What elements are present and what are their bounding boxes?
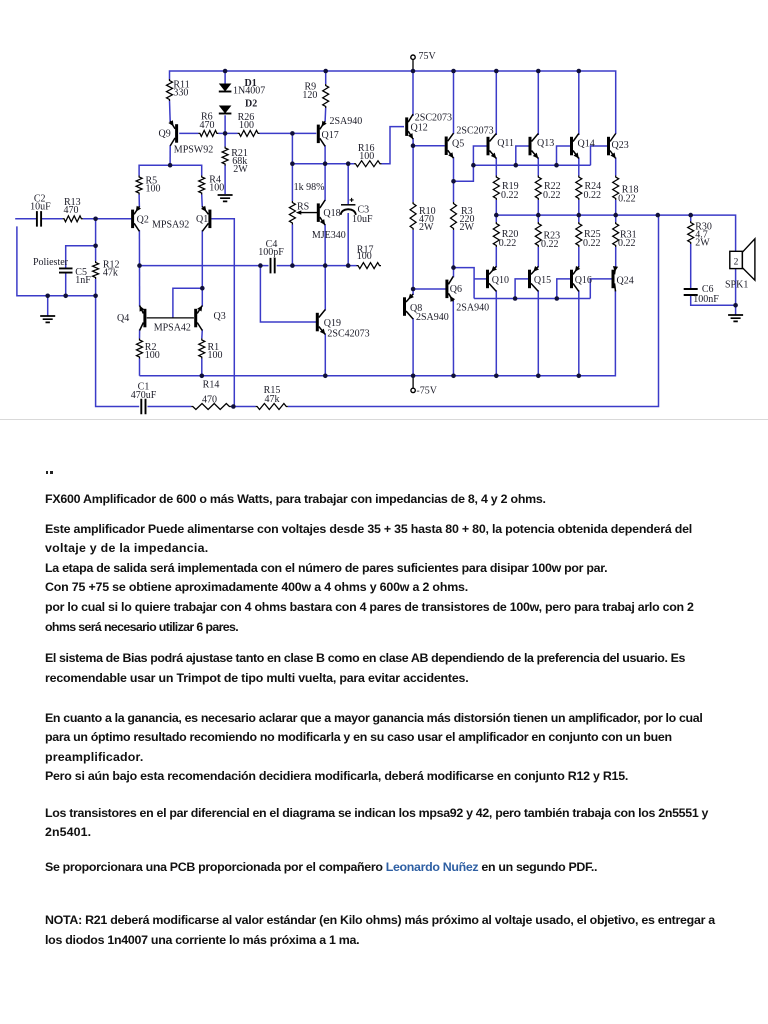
transistor Q13 (529, 134, 539, 159)
svg-text:2W: 2W (233, 164, 248, 175)
svg-text:47k: 47k (265, 394, 280, 405)
node out rail R22 (536, 213, 541, 218)
capacitor C3 polarized (341, 198, 356, 215)
resistor R19 (493, 176, 499, 201)
svg-text:MJE340: MJE340 (312, 230, 346, 241)
wire: C6 to speaker ground node (691, 296, 736, 305)
svg-text:10uF: 10uF (352, 214, 373, 225)
resistor R6 (198, 130, 218, 136)
wire: Q10 base stub (474, 278, 486, 280)
resistor R30 (688, 221, 694, 244)
wire: ground bus down to C1 (96, 296, 140, 407)
wire: +75V top bus (170, 71, 616, 134)
ground under R21 (218, 195, 233, 201)
node Q2 collector (137, 263, 142, 268)
wire: Q14 base riser (557, 146, 571, 165)
transistor Q11 (487, 134, 497, 159)
svg-text:MPSA42: MPSA42 (154, 323, 191, 334)
wire: R10 to Q8 emitter node (412, 230, 414, 295)
wire: driver bus link (454, 146, 487, 181)
node RS bottom (290, 263, 295, 268)
wire: -75V rail (140, 291, 616, 376)
node C3 bottom (346, 263, 351, 268)
wire: Q3 collector to R1 (201, 330, 204, 339)
svg-text:330: 330 (173, 88, 188, 99)
svg-text:2SC2073: 2SC2073 (456, 126, 493, 137)
wire: RS top lead (291, 164, 293, 201)
node bias D2-R6-R26-R21 (223, 131, 228, 136)
wire: Q13 emitter lead (537, 158, 539, 176)
node bus-75V (411, 69, 416, 74)
resistor R18 (613, 176, 619, 201)
wire: Q11 collector riser (495, 71, 497, 135)
node -75 rail term (411, 374, 416, 379)
wire: Q12 emitter to R10 (412, 138, 414, 202)
resistor R20 (493, 222, 499, 247)
svg-text:D2: D2 (245, 99, 257, 110)
node driver riser (471, 163, 476, 168)
svg-text:0.22: 0.22 (499, 238, 517, 249)
wire: VAS rail (292, 163, 354, 165)
svg-text:100: 100 (357, 251, 372, 262)
transistor Q9 (168, 120, 178, 146)
resistor R22 (535, 176, 541, 201)
wire: Q16 emitter drop (578, 290, 580, 375)
svg-text:0.22: 0.22 (584, 190, 602, 201)
node -75 rail Q10 (494, 374, 499, 379)
wire: R20 leads (495, 215, 497, 267)
wire: Q15 emitter drop (537, 290, 539, 375)
svg-text:0.22: 0.22 (618, 194, 636, 205)
svg-text:2SA940: 2SA940 (330, 116, 363, 127)
wire: Q12 collector riser (412, 71, 414, 116)
node out rail R19 (494, 213, 499, 218)
wire: Q5 emitter drop (453, 157, 455, 202)
node gnd bus (93, 294, 98, 299)
svg-text:Q9: Q9 (159, 128, 171, 139)
transistor Q24 (612, 266, 619, 291)
capacitor C6 (684, 289, 698, 295)
wire: Q9 emitter drop (169, 146, 171, 166)
wire: speaker bottom lead (735, 269, 737, 315)
wire: Q19 base from C4 node (260, 266, 316, 322)
transistor Q16 (570, 266, 580, 292)
wire: RS bottom lead (291, 225, 293, 266)
svg-text:R14: R14 (203, 380, 220, 391)
transistor Q4 (140, 306, 147, 331)
wire: R18 to output rail (615, 200, 617, 215)
node C5 bottom (63, 294, 68, 299)
resistor R26 (238, 130, 260, 136)
svg-text:Q11: Q11 (497, 138, 514, 149)
wire: Q1 collector drop (201, 230, 203, 288)
node Q15 riser (513, 296, 518, 301)
wire: R13 node to R12 (95, 219, 97, 261)
wire: R6 to R26 through bias node (218, 132, 237, 134)
resistor R5 (136, 176, 142, 195)
wire: R22 to output rail (537, 200, 539, 215)
wire: Q19 emitter drop (324, 334, 326, 376)
svg-text:470: 470 (202, 395, 217, 406)
wire: upper base bus (473, 164, 590, 166)
resistor R2 (137, 339, 143, 359)
node -75 rail Q6 (451, 374, 456, 379)
wire: R23 leads (537, 215, 539, 267)
wire: Q4 collector to R2 (139, 330, 141, 339)
resistor R4 (199, 176, 205, 195)
resistor R31 (613, 222, 619, 247)
resistor R10 (410, 202, 416, 230)
wire: R5 to Q2 emitter (138, 195, 140, 208)
transistor Q10 (486, 266, 497, 291)
wire: R2 to -75 rail (139, 359, 141, 376)
svg-text:1N4007: 1N4007 (233, 86, 265, 97)
svg-text:470uF: 470uF (131, 390, 157, 401)
node feedback tap (231, 404, 236, 409)
wire: Q23 base riser (591, 146, 608, 165)
wire: R15 to feedback riser (288, 215, 659, 406)
resistor R11 (167, 79, 173, 101)
node bus-Q11 (494, 69, 499, 74)
svg-text:Q13: Q13 (537, 138, 554, 149)
wire: Q13 collector riser (537, 71, 539, 135)
wire: C5 bottom lead (65, 273, 67, 296)
svg-text:Q16: Q16 (575, 275, 592, 286)
svg-text:Q4: Q4 (117, 313, 129, 324)
node C4-Q19 (258, 263, 263, 268)
node Q17 base (290, 131, 295, 136)
wire: Q14 emitter lead (578, 158, 580, 176)
wire: Q13 base riser (516, 146, 529, 165)
node gnd stem (45, 294, 50, 299)
wire: tail rail R5 R4 (139, 165, 202, 175)
wire: R30 leads (690, 215, 692, 288)
svg-text:Q10: Q10 (492, 275, 509, 286)
svg-text:100: 100 (145, 350, 160, 361)
node Q18 emitter (323, 263, 328, 268)
node R3 bottom (451, 265, 456, 270)
wire: output rail (496, 215, 735, 251)
wire: R24 to output rail (578, 200, 580, 215)
wire: R13 to Q2 base (83, 218, 131, 220)
wire: mid rail left of C4 (140, 265, 269, 267)
svg-text:-75V: -75V (416, 385, 437, 396)
svg-text:Q17: Q17 (322, 130, 339, 141)
schematic image bottom border (0, 419, 768, 421)
svg-text:0.22: 0.22 (541, 239, 559, 250)
capacitor C5 (59, 268, 73, 272)
transistor Q1 (201, 206, 211, 232)
wire: lower base bus (474, 298, 590, 300)
speaker SPK1 (730, 239, 755, 280)
svg-text:1k 98%: 1k 98% (294, 182, 325, 193)
node Q9 emitter (168, 163, 173, 168)
wire: Q2 collector drop (138, 230, 140, 265)
wire: Q6 emitter drop (452, 300, 454, 376)
svg-text:Q1: Q1 (196, 214, 208, 225)
svg-text:Q2: Q2 (137, 215, 149, 226)
wire: R3 to Q6 collector node (453, 230, 455, 277)
resistor R25 (576, 222, 582, 247)
svg-text:100nF: 100nF (693, 294, 719, 305)
node out rail feedback (656, 213, 661, 218)
node Q16 riser (555, 296, 560, 301)
svg-text:Q19: Q19 (324, 318, 341, 329)
wire: Q16 base riser (557, 279, 570, 299)
svg-text:Q12: Q12 (411, 123, 428, 134)
wire: Q18 collector riser (324, 164, 326, 201)
wire: C3 leads (347, 164, 349, 266)
resistor R21 (222, 147, 228, 166)
svg-text:470: 470 (200, 120, 215, 131)
wire: Q12 emitter to Q5 base (413, 145, 445, 147)
svg-text:100pF: 100pF (258, 247, 284, 258)
transistor Q5 (445, 133, 454, 158)
resistor RS potentiometer (289, 201, 295, 225)
svg-text:2W: 2W (460, 222, 475, 233)
node out rail R18 (613, 213, 618, 218)
wire: Q5 collector riser (453, 71, 455, 134)
node out rail R30 (688, 213, 693, 218)
svg-text:Q3: Q3 (214, 311, 226, 322)
svg-text:2SC42073: 2SC42073 (327, 329, 369, 340)
node bus-R9 (323, 69, 328, 74)
wire: Q17 base node drop (291, 133, 293, 163)
transistor Q17 (317, 121, 327, 147)
transistor Q12 (405, 114, 413, 139)
svg-text:Q23: Q23 (612, 140, 629, 151)
wire: R26 to Q17 base (260, 132, 317, 134)
svg-text:Q14: Q14 (578, 139, 595, 150)
potentiometer RS wiper arrow (296, 210, 317, 214)
svg-text:Q5: Q5 (452, 139, 464, 150)
svg-text:1nF: 1nF (75, 275, 91, 286)
wire: Q9 base to R6 (179, 132, 198, 134)
terminal -75V (411, 388, 415, 392)
svg-text:Q24: Q24 (617, 276, 634, 287)
transistor Q6 (445, 276, 455, 302)
svg-text:120: 120 (302, 90, 317, 101)
wire: R31 leads (615, 215, 617, 267)
capacitor C2 (37, 211, 41, 227)
wire: R1 to -75 rail (201, 359, 203, 376)
wire: Q8 collector drop (412, 318, 414, 376)
svg-text:100: 100 (146, 183, 161, 194)
capacitor C1 (141, 399, 145, 414)
wire: Q19 collector riser (324, 266, 326, 311)
node bus-Q5 (451, 69, 456, 74)
wire: Q14 collector riser (578, 71, 580, 135)
wire: Q15 base riser (515, 279, 528, 299)
node bus-Q13 (536, 69, 541, 74)
wire: Q10 base link (454, 268, 475, 299)
node bus-D1 (223, 69, 228, 74)
wire: Q4 Q3 base tie riser (173, 288, 202, 318)
svg-text:0.22: 0.22 (543, 190, 561, 201)
svg-text:100: 100 (239, 120, 254, 131)
wire: mid rail right of C4 (277, 265, 357, 267)
svg-text:10uF: 10uF (30, 201, 51, 212)
resistor R14 (191, 404, 231, 410)
wire: Q23 emitter lead (615, 158, 617, 176)
wire: Q4 emitter riser (139, 266, 141, 307)
node bus-Q14 (577, 69, 582, 74)
wire: R16 to Q12 base (382, 127, 405, 164)
svg-text:2SA940: 2SA940 (416, 312, 449, 323)
svg-text:SPK1: SPK1 (725, 279, 748, 290)
node Q14 riser (554, 163, 559, 168)
wire: -75V terminal stem (412, 376, 414, 388)
wire: Q3 emitter riser (201, 288, 203, 306)
svg-text:75V: 75V (419, 51, 437, 62)
resistor R17 (357, 263, 382, 269)
wire: Q8 emitter to Q6 base (413, 288, 446, 290)
ground under speaker (728, 315, 743, 321)
wire: input ground stem (47, 296, 49, 316)
node C3 top (346, 161, 351, 166)
node -75 rail Q16 (577, 374, 582, 379)
wire: C2 to R13 (41, 218, 63, 220)
svg-text:MPSW92: MPSW92 (174, 144, 213, 155)
transistor Q14 (570, 134, 579, 159)
wire: C5 branch (66, 246, 96, 268)
transistor Q2 (131, 206, 141, 232)
node speaker ground (733, 303, 738, 308)
wire: R9 leads (324, 71, 327, 122)
wire: input stub (15, 218, 37, 220)
svg-text:Q15: Q15 (534, 275, 551, 286)
transistor Q3 (194, 306, 202, 331)
resistor R3 (451, 202, 457, 230)
capacitor C4 (271, 258, 275, 274)
resistor R12 (93, 261, 99, 279)
schematic image area (0, 0, 768, 424)
node RS top (290, 161, 295, 166)
resistor R13 (63, 216, 83, 222)
transistor Q23 (607, 134, 616, 159)
wire: Q24 base riser (590, 279, 611, 299)
transistor Q15 (528, 266, 539, 291)
svg-text:MPSA92: MPSA92 (152, 220, 189, 231)
node Q5 emitter (451, 179, 456, 184)
node -75 rail Q19 (323, 374, 328, 379)
wire: Q4-Q3 base link (147, 317, 194, 319)
svg-text:Q18: Q18 (323, 208, 340, 219)
resistor R24 (576, 176, 582, 201)
svg-text:100: 100 (208, 350, 223, 361)
diode D2 (219, 106, 232, 114)
wire: R19 to output rail (495, 200, 497, 215)
diode D1 (219, 84, 232, 92)
node R12 top (93, 244, 98, 249)
node Q3 base-emitter (200, 286, 205, 291)
wire: R25 leads (578, 215, 580, 267)
transistor Q18 (317, 200, 325, 225)
svg-text:Poliester: Poliester (33, 257, 69, 268)
wire: input ground return (17, 226, 96, 295)
resistor R16 (354, 161, 382, 167)
svg-text:0.22: 0.22 (618, 238, 636, 249)
svg-text:470: 470 (64, 205, 79, 216)
wire: bus to D1 (224, 71, 226, 84)
node Q13 riser (514, 163, 519, 168)
node input-R13 (93, 217, 98, 222)
node VAS out (323, 161, 328, 166)
wire: feedback to Q1 base (211, 219, 234, 407)
svg-text:100: 100 (209, 183, 224, 194)
wire: C1 to R14 (148, 406, 192, 408)
node -75 rail R1 (200, 374, 205, 379)
svg-text:0.22: 0.22 (583, 238, 601, 249)
node Q8 emitter (411, 287, 416, 292)
wire: Q10 emitter drop (495, 290, 497, 375)
resistor R15 (256, 404, 288, 410)
wire: D2 to bias node and R21 (224, 115, 226, 194)
wire: Q18 emitter drop (324, 224, 326, 265)
node Q12 emitter (411, 143, 416, 148)
node out rail R24 (577, 213, 582, 218)
svg-text:Q6: Q6 (450, 284, 462, 295)
ground at input (40, 316, 55, 322)
wire: R14 to R15 (231, 406, 256, 408)
wire: Q17 collector drop (324, 145, 326, 163)
wire: +75V terminal stem (412, 60, 414, 71)
resistor R9 (323, 84, 329, 108)
svg-text:0.22: 0.22 (501, 190, 519, 201)
svg-text:2: 2 (734, 257, 739, 267)
transistor Q8 (403, 294, 414, 319)
wire: R4 to Q1 emitter (201, 195, 204, 208)
svg-text:RS: RS (297, 201, 309, 212)
resistor R1 (199, 339, 205, 359)
wire: Q11 emitter lead (495, 158, 497, 176)
wire: R12 bottom lead (95, 279, 97, 296)
terminal +75V (411, 55, 415, 59)
svg-text:2W: 2W (419, 222, 434, 233)
svg-text:100: 100 (359, 151, 374, 162)
transistor Q19 (316, 310, 326, 335)
resistor R23 (535, 222, 541, 247)
wire: R11 bottom lead (169, 101, 172, 123)
svg-text:47k: 47k (103, 268, 118, 279)
svg-text:2W: 2W (695, 238, 710, 249)
svg-text:2SA940: 2SA940 (456, 302, 489, 313)
node -75 rail Q15 (536, 374, 541, 379)
